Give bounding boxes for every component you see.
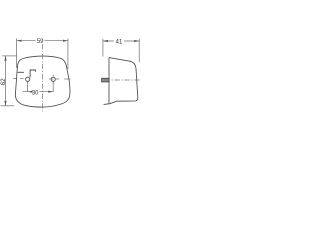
- svg-text:41: 41: [116, 39, 123, 45]
- svg-text:59: 59: [37, 39, 44, 45]
- svg-text:62: 62: [1, 78, 7, 85]
- svg-text:30: 30: [32, 90, 39, 96]
